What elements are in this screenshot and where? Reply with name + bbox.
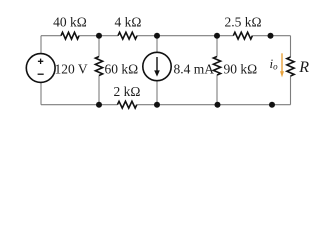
svg-text:2.5 kΩ: 2.5 kΩ (224, 14, 261, 29)
svg-text:90 kΩ: 90 kΩ (224, 62, 258, 77)
svg-text:R: R (298, 59, 309, 76)
svg-text:2 kΩ: 2 kΩ (114, 84, 141, 99)
svg-text:40 kΩ: 40 kΩ (53, 14, 87, 29)
svg-text:60 kΩ: 60 kΩ (105, 62, 139, 77)
svg-text:8.4 mA: 8.4 mA (174, 62, 215, 77)
svg-text:4 kΩ: 4 kΩ (115, 14, 142, 29)
svg-text:120 V: 120 V (55, 61, 88, 76)
